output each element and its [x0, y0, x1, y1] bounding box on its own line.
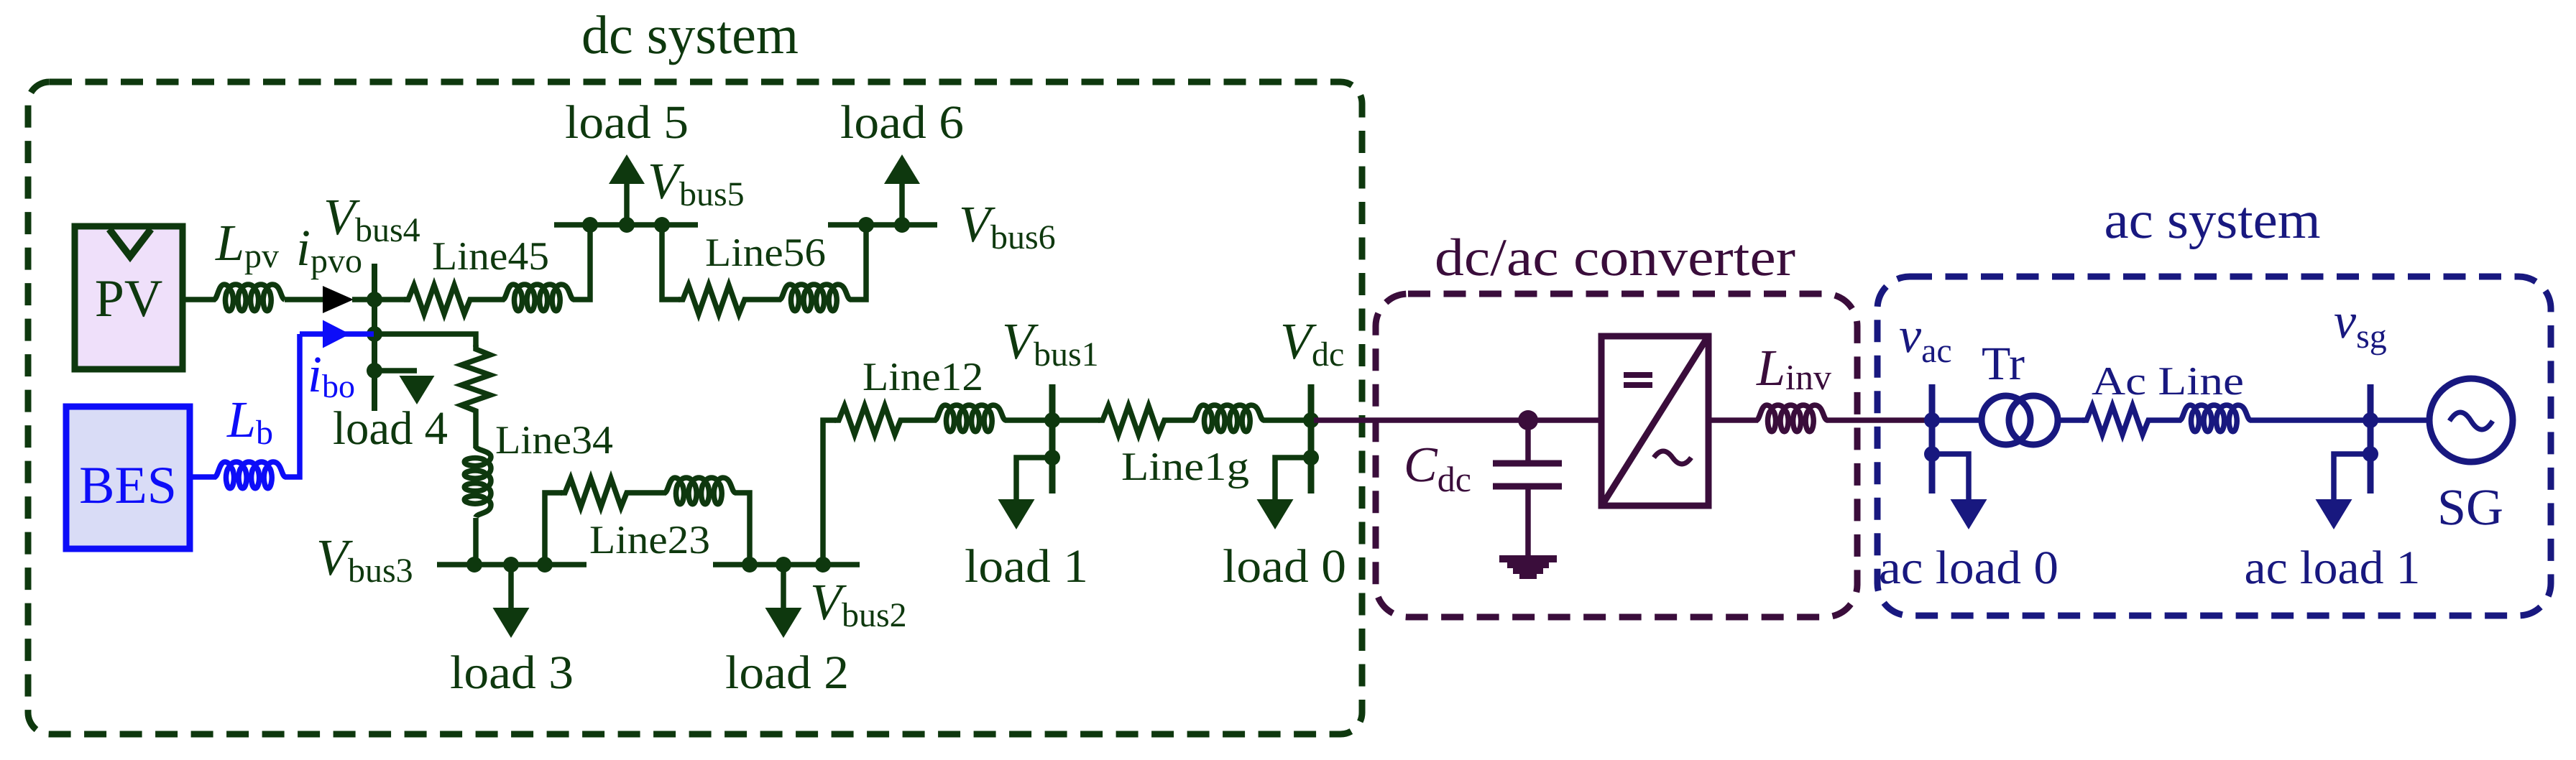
wire bus1 to load1	[1016, 458, 1052, 499]
svg-text:PV: PV	[95, 269, 163, 328]
wire vsg to ac load 1	[2334, 454, 2370, 499]
node bus2-line12	[815, 557, 831, 573]
node bus3-load3	[503, 557, 519, 573]
load 0 arrow	[1257, 499, 1294, 529]
capacitor Cdc stem top	[1525, 420, 1531, 463]
wire bus4 to Line34 (down branch)	[377, 334, 476, 347]
node bus1-main	[1044, 412, 1060, 428]
wire Vdc to inverter (purple)	[1314, 417, 1601, 423]
wire bus6 to load6	[899, 181, 905, 225]
wire Line34 to bus3	[473, 518, 479, 565]
capacitor Cdc stem bottom	[1525, 486, 1531, 557]
bus V_bus4 vertical bar	[372, 264, 377, 411]
wire Linv to vac (purple)	[1826, 417, 1926, 423]
svg-text:load 5: load 5	[565, 96, 689, 149]
inverter block body	[1601, 336, 1708, 506]
svg-text:Ac Line: Ac Line	[2092, 359, 2244, 404]
load 2 arrow	[765, 608, 802, 638]
wire vac to ac load 0	[1932, 454, 1969, 499]
wire Line45 to bus5 riser	[573, 225, 590, 300]
node bus5-load5	[619, 217, 635, 233]
wire bus4 to load4	[374, 368, 417, 374]
svg-text:dc system: dc system	[581, 5, 799, 65]
load 3 arrow	[493, 608, 530, 638]
wire bus2 to load2	[781, 565, 786, 609]
synchronous generator SG circle	[2429, 379, 2513, 462]
wire bus2 up to Line12	[823, 420, 836, 565]
wire bus5 down to Line56	[662, 225, 680, 300]
node vsg-acload1	[2363, 446, 2378, 462]
node bus4-bes junction	[367, 326, 382, 342]
PV source block	[75, 226, 183, 369]
dc system dashed boundary box	[28, 82, 1362, 734]
svg-text:load 2: load 2	[725, 647, 849, 699]
node vac-acload0	[1924, 446, 1940, 462]
svg-text:load 3: load 3	[450, 647, 574, 699]
inductor Linv	[1757, 405, 1827, 432]
wire Line56 to bus6 riser	[850, 225, 866, 300]
wire Line1g res to coil	[1169, 417, 1195, 423]
ac load 1 arrow	[2316, 499, 2352, 529]
bus V_bus2 bar	[713, 562, 860, 567]
node bus5-line56	[654, 217, 670, 233]
Line34 inductor	[464, 447, 491, 517]
node bus6-line56	[858, 217, 874, 233]
inverter diagonal	[1604, 339, 1706, 503]
svg-text:Line23: Line23	[589, 518, 710, 562]
svg-text:Line56: Line56	[705, 231, 826, 275]
capacitor Cdc bottom plate	[1493, 483, 1562, 490]
bus V_bus3 bar	[437, 562, 586, 567]
svg-text:ac load 1: ac load 1	[2245, 542, 2421, 594]
transformer Tr circle 2	[2009, 396, 2058, 445]
wire Line1g to Vdc bus	[1263, 417, 1311, 423]
ground symbol	[1499, 555, 1557, 579]
load 6 arrow	[884, 154, 920, 184]
node bus2-line23	[742, 557, 758, 573]
wire Ac Line to vsg	[2250, 417, 2370, 423]
wire bus4 to Line45	[374, 297, 410, 302]
inverter dc symbol (=)	[1624, 372, 1652, 378]
wire Lpv to diode	[285, 297, 323, 302]
svg-text:load 0: load 0	[1223, 540, 1346, 593]
svg-text:Line45: Line45	[432, 234, 549, 279]
bus V_dc vertical bar	[1308, 384, 1315, 493]
wire transformer to Ac Line	[2056, 417, 2085, 423]
bus V_bus6 bar	[828, 222, 937, 228]
inductor Lb	[215, 462, 285, 488]
Line56 resistor	[678, 285, 749, 314]
wire vac to transformer	[1932, 417, 1984, 423]
load 4 arrow	[400, 376, 435, 404]
Ac Line resistor	[2082, 406, 2153, 435]
Line12 inductor	[935, 405, 1006, 432]
bus V_bus5 bar	[554, 222, 698, 228]
SG ac symbol (~)	[2449, 412, 2493, 430]
svg-text:load 4: load 4	[333, 402, 448, 455]
wire vdc to load0	[1275, 458, 1311, 499]
diode (pv output, black)	[323, 286, 354, 313]
transformer Tr circle 1	[1982, 396, 2030, 445]
load 5 arrow	[609, 154, 645, 184]
wire bus3 up to Line23	[545, 493, 562, 565]
node vdc-load0	[1303, 450, 1319, 465]
node bus6-load6	[894, 217, 910, 233]
wire Line23 to bus2	[735, 493, 750, 565]
Line23 inductor	[665, 478, 735, 504]
wire BES to Lb	[187, 474, 216, 480]
node vsg-main	[2363, 412, 2378, 428]
Line45 inductor	[503, 284, 574, 311]
svg-text:ac load 0: ac load 0	[1879, 542, 2058, 594]
wire Line56 res to coil	[749, 297, 781, 302]
capacitor Cdc top plate	[1493, 460, 1562, 467]
svg-text:Tr: Tr	[1982, 338, 2025, 390]
node bus3-line23	[537, 557, 553, 573]
wire Line45 res to coil	[474, 297, 505, 302]
wire inverter to Linv	[1708, 417, 1758, 423]
inverter ac symbol (~)	[1654, 451, 1691, 464]
Ac Line inductor	[2180, 405, 2250, 432]
node bus2-load2	[776, 557, 791, 573]
ibo current arrow (blue)	[323, 320, 350, 348]
node vdc-main	[1303, 412, 1319, 428]
ac load 0 arrow	[1951, 499, 1987, 529]
svg-text:Line34: Line34	[495, 418, 613, 463]
ac system dashed boundary box	[1877, 277, 2551, 616]
wire Line12 to bus1	[1005, 417, 1052, 423]
wire Line23 res to coil	[631, 490, 666, 496]
svg-text:ac system: ac system	[2104, 191, 2321, 250]
wire bus1 to Line1g	[1052, 417, 1100, 423]
wire bus5 to load5	[624, 181, 630, 225]
Line45 resistor	[404, 285, 474, 314]
wire ibo into bus4 (blue, over dot)	[300, 331, 374, 337]
Line1g inductor	[1193, 405, 1264, 432]
svg-text:dc/ac converter: dc/ac converter	[1435, 228, 1795, 287]
svg-text:SG: SG	[2437, 478, 2503, 536]
bus v_sg vertical bar	[2368, 384, 2374, 493]
node vac-main	[1924, 412, 1940, 428]
wire bus3 to load3	[508, 565, 514, 609]
BES block	[66, 407, 190, 549]
svg-text:load 1: load 1	[965, 540, 1088, 593]
wire vsg to SG	[2370, 417, 2431, 423]
bus V_bus1 vertical bar	[1049, 384, 1056, 493]
PV panel notch	[109, 229, 151, 256]
svg-text:BES: BES	[79, 456, 177, 515]
dc/ac converter dashed boundary box	[1376, 294, 1857, 617]
Line56 inductor	[780, 284, 850, 311]
Line1g resistor	[1098, 406, 1169, 435]
node bus3-line34	[466, 557, 482, 573]
wire PV to Lpv	[183, 297, 216, 302]
node bus5-line45	[582, 217, 598, 233]
node bus4-load4 junction	[367, 363, 382, 379]
wire Lb to riser and up to bus4 (blue)	[285, 334, 300, 477]
svg-text:Line1g: Line1g	[1121, 445, 1249, 489]
svg-text:load 6: load 6	[840, 96, 964, 149]
load 1 arrow	[998, 499, 1035, 529]
wire Ac Line res to coil	[2153, 417, 2181, 423]
Line34 resistor	[461, 345, 490, 415]
svg-text:Line12: Line12	[862, 355, 983, 399]
Line12 resistor	[834, 406, 905, 435]
Line23 resistor	[561, 478, 631, 507]
wire Line34 res to coil	[473, 415, 479, 448]
node Cdc junction	[1518, 410, 1538, 430]
wire diode to bus4	[352, 297, 374, 302]
node bus1-load1	[1044, 450, 1060, 465]
node bus4-pv junction	[367, 292, 382, 307]
wire Line12 res to coil	[905, 417, 937, 423]
bus v_ac vertical bar	[1929, 384, 1936, 493]
inductor Lpv	[214, 284, 285, 311]
